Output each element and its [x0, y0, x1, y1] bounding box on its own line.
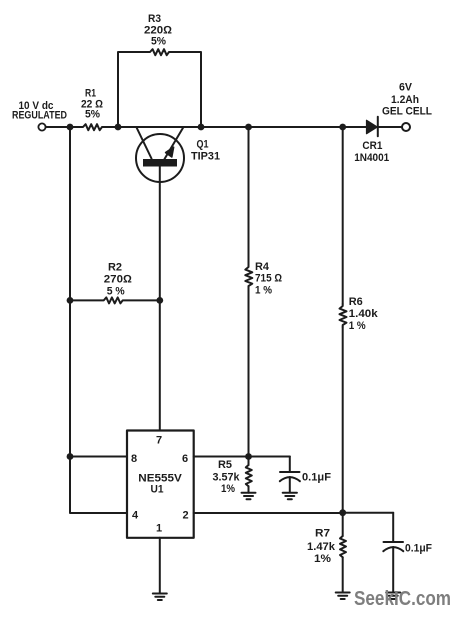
ground below U1 pin 1 — [153, 594, 167, 601]
svg-text:4: 4 — [132, 510, 139, 522]
svg-text:1: 1 — [156, 523, 162, 535]
capacitor C1 curved plate — [280, 477, 300, 481]
svg-text:GEL CELL: GEL CELL — [382, 106, 432, 118]
wire R5 top — [248, 457, 250, 466]
svg-text:R6: R6 — [349, 296, 363, 308]
svg-text:U1: U1 — [151, 484, 164, 496]
node pin2/R6/R7/C2 — [339, 509, 346, 516]
transistor Q1 circle — [136, 134, 184, 182]
svg-text:5 %: 5 % — [107, 286, 125, 298]
svg-text:8: 8 — [131, 453, 137, 465]
svg-text:SeekIC.com: SeekIC.com — [354, 588, 451, 610]
wire R6 to pin2 node — [342, 327, 344, 513]
svg-text:1.2Ah: 1.2Ah — [391, 94, 419, 106]
svg-text:REGULATED: REGULATED — [12, 110, 67, 122]
node R2 right — [156, 297, 163, 304]
label R7 1.47k 1% — [307, 528, 336, 566]
label R1 22Ω 5% — [81, 88, 104, 121]
output terminal (gel cell) — [402, 123, 410, 131]
wire input to R1 — [46, 126, 80, 128]
svg-text:1N4001: 1N4001 — [354, 152, 389, 164]
svg-text:R7: R7 — [315, 528, 330, 540]
ground below C2 — [386, 593, 400, 600]
svg-text:R5: R5 — [218, 459, 232, 471]
label 6V 1.2Ah GEL CELL — [382, 82, 432, 118]
wire pin 1 to ground — [159, 538, 161, 594]
label R5 3.57k 1% — [213, 459, 241, 495]
node pin6/R4/R5 — [245, 453, 252, 460]
svg-text:CR1: CR1 — [362, 140, 382, 152]
svg-text:0.1μF: 0.1μF — [302, 472, 331, 484]
label R2 270Ω 5% — [104, 262, 133, 298]
wire R1 to diode — [104, 126, 366, 128]
ground below R5 — [242, 493, 256, 500]
svg-text:R2: R2 — [108, 262, 122, 274]
wire base to pin7 — [159, 167, 161, 431]
wire R5 to ground — [248, 486, 250, 492]
svg-text:3.57k: 3.57k — [213, 472, 241, 484]
svg-text:1.47k: 1.47k — [307, 541, 336, 553]
diode CR1 — [367, 120, 378, 133]
label Q1 TIP31 — [191, 139, 220, 163]
capacitor C1 top plate — [280, 471, 300, 473]
resistor R7 — [340, 536, 346, 557]
svg-text:TIP31: TIP31 — [191, 151, 220, 163]
wire R3 loop right — [171, 52, 201, 127]
svg-text:5%: 5% — [151, 36, 166, 48]
wire pin 8 — [70, 456, 127, 458]
watermark SeekIC.com — [354, 588, 451, 610]
capacitor C2 wire to ground — [392, 547, 394, 593]
wire R4 to pin6 node — [248, 288, 250, 457]
transistor Q1 base bar — [143, 159, 177, 167]
svg-text:R3: R3 — [148, 13, 161, 25]
resistor R1 — [80, 124, 104, 130]
node R3 right / emitter — [198, 124, 205, 131]
svg-text:5%: 5% — [85, 109, 100, 121]
node R4 branch — [245, 124, 252, 131]
svg-text:6: 6 — [182, 453, 188, 465]
ground below R7 — [336, 593, 350, 600]
transistor Q1 collector line — [136, 127, 151, 159]
label R3 220Ω 5% — [144, 13, 173, 48]
label CR1 1N4001 — [354, 140, 389, 164]
resistor R4 — [245, 265, 252, 288]
node left branch — [67, 124, 74, 131]
IC timer U1 NE555V body — [127, 431, 194, 538]
svg-text:1%: 1% — [314, 553, 331, 565]
svg-text:270Ω: 270Ω — [104, 274, 133, 286]
U1 pin labels — [131, 435, 189, 535]
capacitor C2 wire down — [392, 513, 394, 542]
resistor R2 — [70, 297, 160, 303]
node R2 left — [67, 297, 74, 304]
wire pin 6 — [194, 456, 290, 458]
node R3 left / collector — [115, 124, 122, 131]
svg-text:Q1: Q1 — [197, 139, 209, 151]
label 0.1μF C1 — [302, 472, 331, 484]
svg-text:715 Ω: 715 Ω — [255, 273, 282, 285]
wire R3 loop left — [118, 52, 148, 127]
svg-text:2: 2 — [182, 510, 188, 522]
capacitor C2 curved plate — [383, 547, 403, 551]
svg-text:1.40k: 1.40k — [349, 308, 379, 320]
resistor R6 — [340, 304, 347, 327]
wire R6 branch upper — [342, 127, 344, 304]
svg-text:7: 7 — [156, 435, 162, 447]
label R6 1.40k 1% — [349, 296, 379, 332]
resistor R5 — [246, 465, 252, 486]
wire diode to output — [378, 126, 402, 128]
wire pin 2 — [194, 512, 343, 514]
label 0.1μF C2 — [405, 543, 432, 555]
svg-text:0.1μF: 0.1μF — [405, 543, 432, 555]
wire node to C2 — [343, 512, 394, 514]
wire R7 to ground — [342, 557, 344, 592]
capacitor C2 top plate — [384, 541, 404, 543]
svg-text:1 %: 1 % — [349, 320, 366, 332]
svg-text:1%: 1% — [221, 483, 235, 495]
node R6 branch — [339, 124, 346, 131]
transistor Q1 emitter arrowhead — [166, 147, 174, 157]
transistor Q1 emitter line with arrow — [165, 127, 184, 159]
svg-text:1 %: 1 % — [255, 285, 272, 297]
wire left branch down — [70, 127, 127, 513]
diode CR1 cathode bar — [377, 117, 379, 137]
capacitor C1 wire down — [289, 457, 291, 472]
ground below C1 — [283, 493, 297, 500]
wire R4 branch upper — [248, 127, 250, 265]
label 10 V dc REGULATED — [12, 100, 67, 122]
node pin8 junction — [67, 453, 74, 460]
resistor R3 — [148, 49, 171, 55]
capacitor C1 wire to ground — [289, 477, 291, 493]
input terminal (10 V dc) — [38, 123, 45, 130]
svg-text:6V: 6V — [399, 82, 413, 94]
wire R7 top — [342, 513, 344, 536]
label R4 715Ω 1% — [255, 261, 282, 297]
svg-text:R4: R4 — [255, 261, 270, 273]
